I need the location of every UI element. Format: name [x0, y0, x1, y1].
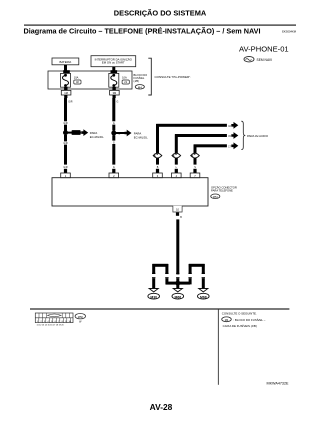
wire B end label — [228, 135, 231, 138]
wire color label B — [157, 166, 159, 169]
pin into big box 2 — [112, 169, 115, 173]
connector pin box 4 — [172, 173, 182, 178]
connector pin box 2 — [109, 173, 119, 178]
bracket — [148, 58, 151, 95]
fuse F1 10A — [61, 73, 71, 87]
wire below shield B — [175, 158, 178, 165]
ignition switch label — [95, 56, 133, 64]
svg-text:G: G — [117, 100, 119, 103]
label BLOCO DO FUSÍVEL (J/B) — [134, 73, 148, 83]
wire color label G/R — [68, 100, 73, 103]
fuse F1 number tag 32 — [74, 80, 81, 84]
label PARA AV-AUDIO — [247, 134, 269, 138]
connector tag M4 — [135, 85, 144, 90]
pin below connector 1M — [64, 95, 67, 98]
connector break ticks center — [176, 273, 179, 274]
note CAIXA DE FUSÍVEIS — [223, 324, 257, 328]
wire below shield A — [156, 158, 159, 165]
svg-text:: BLOCO DO FUSÍVEL –: : BLOCO DO FUSÍVEL – — [233, 318, 265, 322]
right bridge leg — [189, 264, 192, 274]
wire A end label — [228, 125, 231, 128]
connector pin box 10 (bottom) — [173, 206, 182, 212]
wire shield A horizontal — [156, 124, 227, 127]
connector face view M50 — [35, 313, 73, 326]
left bridge top horizontal — [152, 264, 168, 267]
wire below shield C — [194, 158, 197, 165]
wire G/R segment 2 — [64, 125, 67, 131]
wire G/R segment 4 — [64, 145, 67, 165]
note CONSULTE PG-POWER — [155, 75, 192, 79]
svg-text:EC-MIL/DL: EC-MIL/DL — [134, 136, 148, 140]
fuse F1 value 10A — [74, 76, 79, 80]
telephone pre-install connector box — [52, 178, 208, 206]
notes divider vertical — [217, 309, 220, 385]
wire color label G — [117, 100, 119, 103]
pin below box 10 — [176, 212, 179, 215]
label PARA EC-MIL/DL (left) — [90, 131, 104, 139]
wire shield B horizontal — [175, 134, 227, 137]
wire battery to J/B — [64, 65, 67, 71]
wire B ground segment 2 — [176, 278, 179, 288]
wire shield C horizontal — [194, 144, 227, 147]
fuse F2 10A — [109, 73, 119, 87]
wire G segment 1 — [112, 98, 115, 121]
arrow to EC-MIL/DL (right) — [125, 130, 132, 137]
ground symbol right — [198, 289, 210, 300]
wire branch to EC-MIL/DL (left) — [66, 132, 81, 134]
marker SEM NAVI text — [257, 58, 273, 62]
pin into big box 7 — [193, 169, 196, 173]
wire shield C vertical — [194, 145, 197, 154]
svg-text:G/R: G/R — [68, 100, 73, 103]
arrow B to AV-AUDIO — [231, 132, 238, 139]
svg-text:EM ON ou START: EM ON ou START — [102, 60, 125, 64]
arrow A to AV-AUDIO — [231, 122, 238, 129]
connector tag M51 — [211, 194, 220, 199]
wire color label S — [194, 166, 196, 169]
wire G segment 4 — [112, 144, 115, 165]
svg-text:CONSULTE O SEGUINTE.: CONSULTE O SEGUINTE. — [222, 312, 257, 316]
note CONSULTE O SEGUINTE — [222, 312, 257, 316]
svg-text:PARA AV-AUDIO: PARA AV-AUDIO — [247, 134, 269, 138]
wire ignition to J/B — [112, 67, 115, 71]
wire color label G/R at connector — [63, 166, 68, 169]
wire G/R segment 1 — [64, 98, 67, 121]
svg-text:G/R: G/R — [63, 122, 68, 125]
section code EKS004KM — [282, 30, 297, 34]
svg-text:Diagrama de Circuito – TELEFON: Diagrama de Circuito – TELEFONE (PRÉ-INS… — [24, 26, 261, 35]
connector pin box 1 — [61, 173, 71, 178]
pin into big box 4 — [175, 169, 178, 173]
arrow C to AV-AUDIO — [231, 142, 238, 149]
note tag M4 — [222, 317, 232, 322]
battery box — [52, 58, 79, 65]
wire shield A vertical — [156, 124, 159, 153]
svg-text:G/R: G/R — [63, 166, 68, 169]
left bridge leg — [165, 264, 168, 274]
left outer leg — [152, 264, 155, 274]
svg-text:EC-MIL/DL: EC-MIL/DL — [90, 135, 104, 139]
connector pin box 7 — [190, 173, 200, 178]
svg-text:MKWA4732E: MKWA4732E — [267, 381, 290, 385]
svg-text:BATERIA: BATERIA — [60, 60, 72, 64]
svg-text:M68: M68 — [200, 296, 207, 300]
wire G/R break label — [63, 122, 68, 125]
figure code MKWA4732E — [267, 381, 290, 385]
brace PARA AV-AUDIO — [241, 121, 245, 149]
pin into big box 3 — [156, 169, 159, 173]
svg-text:DESCRIÇÃO DO SISTEMA: DESCRIÇÃO DO SISTEMA — [114, 9, 207, 18]
pin into big box 1 — [64, 169, 67, 173]
wire B ground segment 1 — [176, 219, 179, 274]
pin below connector 3M — [113, 95, 116, 98]
svg-text:11 12 13 14 15 16 17 18 19 20: 11 12 13 14 15 16 17 18 19 20 — [37, 324, 65, 326]
wire shield B vertical — [175, 134, 178, 153]
wire G segment 3 — [112, 135, 115, 140]
J/B entry pin E (ignition) — [111, 70, 118, 74]
ground symbol center — [172, 289, 184, 300]
svg-text:M66: M66 — [174, 296, 181, 300]
wire G break label 2 — [113, 141, 115, 144]
wire G/R break label 2 — [63, 142, 68, 145]
marker SEM NAVI oval icon — [244, 57, 254, 62]
shield symbol A — [153, 153, 162, 158]
junction node C — [175, 281, 180, 286]
wire G break label — [113, 122, 115, 125]
fuse F2 number tag 21 — [122, 80, 129, 84]
junction node A — [63, 130, 68, 135]
J/B exit connector 1M (battery side) — [61, 90, 71, 95]
J/B exit pin (battery side) — [64, 87, 67, 91]
svg-text:G: G — [113, 166, 115, 169]
wire G segment 2 — [112, 125, 115, 131]
battery label — [60, 60, 72, 64]
svg-text:AV-28: AV-28 — [150, 402, 173, 412]
label PARA EC-MIL/DL (right) — [134, 131, 148, 139]
svg-text:PARA: PARA — [90, 131, 98, 135]
svg-text:G: G — [113, 141, 115, 144]
wire color label B (ground wire) — [180, 216, 182, 219]
arrow to EC-MIL/DL (left) — [81, 129, 88, 136]
wire branch to EC-MIL/DL (right) — [114, 132, 125, 134]
branch wire color G — [118, 132, 120, 136]
wire G/R segment 3 — [64, 135, 67, 142]
header rule — [24, 25, 296, 26]
svg-text:PARA: PARA — [134, 131, 142, 135]
ground symbol left — [148, 289, 160, 300]
J/B exit connector 3M (ignition side) — [110, 90, 120, 95]
label OPÇÃO CONECTOR PARA TELEFONE — [211, 184, 237, 192]
ground bus bottom horizontal — [166, 282, 190, 285]
right bridge top horizontal — [189, 264, 205, 267]
junction node B — [111, 131, 116, 136]
svg-text:SEM NAVI: SEM NAVI — [257, 58, 273, 62]
connector pin box 3 — [153, 173, 163, 178]
wire C end label — [228, 145, 231, 148]
svg-text:M30: M30 — [150, 296, 157, 300]
right outer leg — [202, 264, 205, 274]
shield symbol B — [172, 153, 181, 158]
branch tag G/R — [72, 130, 81, 135]
bottom separator rule — [30, 308, 289, 309]
ignition switch box — [91, 56, 136, 67]
svg-text:G: G — [113, 122, 115, 125]
svg-text:M4: M4 — [138, 85, 142, 89]
J/B exit pin (ignition side) — [112, 87, 115, 91]
fuse F2 value 10A — [122, 76, 127, 80]
note BLOCO DO FUSÍVEL — [233, 318, 265, 322]
fuse block J/B box — [48, 71, 132, 89]
shield symbol C — [191, 153, 200, 158]
svg-text:G/R: G/R — [63, 142, 68, 145]
svg-text:AV-PHONE-01: AV-PHONE-01 — [239, 44, 289, 53]
wire color label L — [176, 166, 178, 169]
svg-text:CONSULTE "PG-POWER".: CONSULTE "PG-POWER". — [155, 75, 192, 79]
connector tag M50 — [75, 314, 85, 324]
svg-text:CAIXA DE FUSÍVEIS (J/B): CAIXA DE FUSÍVEIS (J/B) — [223, 324, 257, 328]
J/B entry pin E (battery) — [63, 70, 70, 74]
wire color label G at connector — [113, 166, 115, 169]
